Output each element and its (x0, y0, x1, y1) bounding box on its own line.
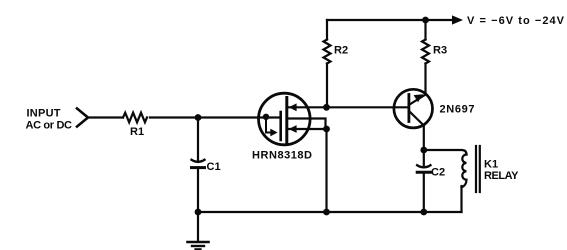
svg-text:HRN8318D: HRN8318D (252, 150, 312, 162)
svg-text:C2: C2 (431, 167, 445, 179)
wire to ground (197, 212, 199, 242)
drain arrow (289, 103, 297, 111)
wire C2 top (423, 150, 425, 165)
node source junction (323, 126, 330, 133)
relay core lines (475, 146, 477, 192)
gate bar (279, 112, 282, 140)
node collector/C2/relay junction (420, 147, 427, 154)
wire collector down (423, 126, 425, 151)
wire source to bottom rail (325, 129, 327, 212)
wire R3 top (424, 20, 426, 40)
capacitor C2 (417, 165, 430, 167)
substrate arrow (270, 129, 277, 137)
node source/rail junction (323, 209, 330, 216)
emitter arrow (414, 94, 423, 102)
svg-text:C1: C1 (207, 161, 221, 173)
node C2/rail junction (420, 209, 427, 216)
transistor Q1 2N697 body (394, 89, 433, 128)
wire relay bottom (460, 186, 462, 212)
emitter diagonal (410, 95, 426, 105)
wire input to R1 (88, 116, 123, 118)
substrate lead wire (288, 119, 325, 130)
wire R2 top (326, 20, 328, 40)
top rail wire (327, 19, 453, 21)
svg-text:K1: K1 (484, 159, 498, 171)
resistor R1 (123, 113, 147, 123)
source arrow (289, 125, 297, 133)
svg-text:2N697: 2N697 (440, 104, 475, 116)
svg-text:INPUT: INPUT (27, 108, 61, 120)
supply arrow (452, 15, 463, 24)
wire C2 bottom (423, 174, 425, 212)
inductor K1 coil (462, 155, 467, 188)
node R3 top junction (422, 17, 429, 24)
wire R1 to gate (150, 116, 280, 118)
wire C1 top (197, 118, 199, 161)
node drain junction (323, 104, 330, 111)
wire substrate L (266, 117, 270, 133)
svg-text:AC or DC: AC or DC (26, 120, 73, 132)
resistor R2 (324, 40, 331, 64)
svg-text:R1: R1 (130, 126, 144, 138)
mosfet U1 HRN8318D body (259, 93, 311, 145)
source lead wire (288, 128, 326, 130)
drain lead wire (288, 106, 326, 108)
collector diagonal (410, 112, 424, 126)
base bar (407, 95, 410, 122)
svg-text:V = −6V to −24V: V = −6V to −24V (467, 15, 565, 27)
wire C1 bottom (197, 169, 199, 212)
wire R3 bottom to emitter (424, 64, 426, 95)
base wire (327, 106, 409, 108)
channel bar (285, 98, 288, 143)
svg-text:R2: R2 (334, 45, 348, 57)
svg-text:RELAY: RELAY (484, 170, 519, 182)
wire relay top (424, 150, 467, 155)
bottom rail wire (198, 211, 462, 213)
ground (188, 241, 209, 244)
svg-text:R3: R3 (433, 45, 447, 57)
capacitor C1 (192, 160, 205, 162)
node gate junction (263, 114, 269, 120)
input terminal chevron (77, 109, 88, 127)
node junction C1/ground (195, 209, 202, 216)
wire R2 bottom to drain node (326, 64, 328, 108)
resistor R3 (422, 40, 429, 64)
node junction at C1 top (195, 114, 202, 121)
